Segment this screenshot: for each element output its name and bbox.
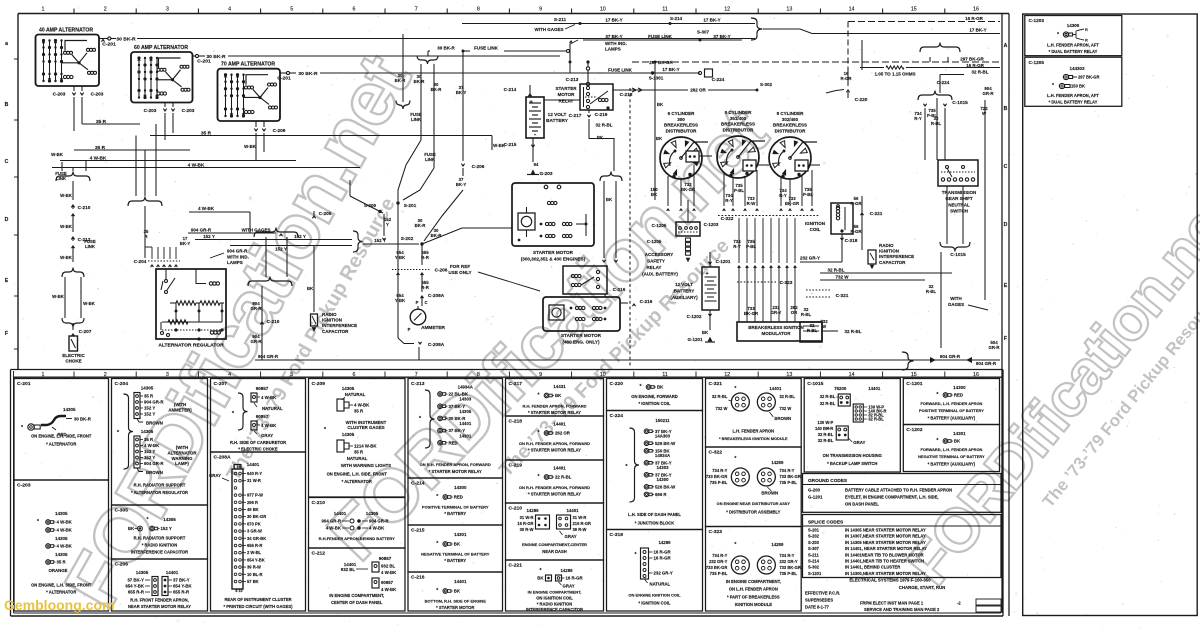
electric choke <box>69 336 78 351</box>
panel C-212 <box>309 548 406 611</box>
svg-text:14301: 14301 <box>459 433 472 438</box>
svg-text:152 Y: 152 Y <box>203 234 215 239</box>
svg-text:2 W-BL: 2 W-BL <box>247 550 262 555</box>
svg-text:W-BK: W-BK <box>60 255 73 260</box>
svg-text:(WITH: (WITH <box>174 402 187 407</box>
svg-text:37 BK-Y: 37 BK-Y <box>173 578 190 583</box>
resistance wire 1.05 to 1.15 ohms <box>886 66 904 69</box>
svg-text:C-1015: C-1015 <box>952 100 968 106</box>
svg-text:17 BK-Y: 17 BK-Y <box>703 18 720 23</box>
svg-text:GR-R: GR-R <box>982 91 994 96</box>
starter1 coils <box>545 222 548 225</box>
svg-text:* BREAKERLESS IGNITION MODULE: * BREAKERLESS IGNITION MODULE <box>719 436 788 441</box>
C-204 connector group 1 <box>134 393 140 419</box>
svg-text:13: 13 <box>786 372 792 378</box>
svg-text:DISTRIBUTOR: DISTRIBUTOR <box>723 127 755 132</box>
svg-text:R-Y: R-Y <box>914 116 922 121</box>
svg-text:735 P-BL: 735 P-BL <box>710 571 728 576</box>
svg-text:ON R.H. FENDER APRON, FORWARD: ON R.H. FENDER APRON, FORWARD <box>420 462 491 467</box>
svg-text:35 R: 35 R <box>96 119 107 125</box>
wire 152 Y lower <box>230 245 352 247</box>
svg-text:GR-Y: GR-Y <box>771 310 782 315</box>
transmission gear shift neutral switch <box>938 160 978 186</box>
svg-text:L.H. FENDER APRON, AFT: L.H. FENDER APRON, AFT <box>1047 43 1099 48</box>
svg-text:232 GR-Y: 232 GR-Y <box>654 571 673 576</box>
svg-text:R-BL: R-BL <box>931 121 942 126</box>
svg-text:152 Y: 152 Y <box>294 234 306 239</box>
wire 4 W-BK mid <box>189 211 250 213</box>
svg-text:17 BK-Y: 17 BK-Y <box>662 67 679 72</box>
svg-text:*: * <box>936 438 938 444</box>
svg-text:S-203: S-203 <box>808 540 820 545</box>
svg-text:C-204: C-204 <box>134 259 147 265</box>
connector C-203 pair below 40A alternator <box>73 86 75 91</box>
svg-text:BK: BK <box>307 286 314 291</box>
svg-text:C-1015: C-1015 <box>807 381 823 387</box>
wire brace right of regulator (lower) <box>248 277 292 287</box>
svg-text:FRPM ELECT INST MAN PAGE 1: FRPM ELECT INST MAN PAGE 1 <box>860 601 924 606</box>
svg-text:734 R-Y: 734 R-Y <box>712 553 727 558</box>
svg-text:* ALTERNATOR: * ALTERNATOR <box>46 442 76 447</box>
svg-text:32 R-BL: 32 R-BL <box>779 394 795 399</box>
svg-text:EYELET, IN ENGINE COMPARTMENT,: EYELET, IN ENGINE COMPARTMENT, L.H. SIDE… <box>845 495 939 500</box>
svg-text:C-212: C-212 <box>312 551 326 557</box>
fuse link drop corner at 30 BK-R bus <box>427 51 429 56</box>
svg-text:BATTERY: BATTERY <box>674 288 695 293</box>
svg-text:C-201: C-201 <box>197 59 211 65</box>
svg-text:14300: 14300 <box>656 477 669 482</box>
svg-text:BK-GR: BK-GR <box>744 311 759 316</box>
svg-text:* ALTERNATOR REGULATOR: * ALTERNATOR REGULATOR <box>131 490 188 495</box>
bottom bus arrows 904 GR-R right <box>902 352 913 370</box>
svg-text:R-GR: R-GR <box>850 201 862 206</box>
svg-text:RED: RED <box>454 495 463 500</box>
starter motor relay <box>580 84 613 110</box>
brace pair junction (left) <box>62 268 84 278</box>
svg-text:BK: BK <box>657 102 664 107</box>
svg-text:ON R.H. FENDER APRON, FORWARD: ON R.H. FENDER APRON, FORWARD <box>519 485 590 490</box>
svg-text:ALTERNATOR REGULATOR: ALTERNATOR REGULATOR <box>158 343 224 349</box>
svg-text:14401: 14401 <box>454 579 467 584</box>
svg-text:90857: 90857 <box>381 580 394 585</box>
svg-text:2: 2 <box>104 372 107 378</box>
svg-text:*: * <box>537 430 539 436</box>
svg-text:31 W-R: 31 W-R <box>247 478 261 483</box>
svg-text:733 BK-GR: 733 BK-GR <box>779 565 800 570</box>
distributor rotor and lever <box>727 150 732 165</box>
svg-text:8 CYLINDER: 8 CYLINDER <box>725 110 753 115</box>
svg-text:LINK: LINK <box>56 176 67 181</box>
svg-text:262 OR: 262 OR <box>690 88 706 93</box>
alternator regulator box <box>156 269 226 339</box>
svg-text:35 R: 35 R <box>354 450 364 455</box>
svg-text:BROWN: BROWN <box>774 416 791 421</box>
svg-text:BK: BK <box>128 526 135 531</box>
svg-text:BREAKERLESS: BREAKERLESS <box>773 123 807 128</box>
wire 262 OR <box>613 89 688 91</box>
svg-text:14401: 14401 <box>334 511 347 516</box>
svg-text:3 GR-W: 3 GR-W <box>247 529 262 534</box>
svg-text:640 R-Y: 640 R-Y <box>247 471 262 476</box>
wires 32 R-BL and 732 W horizontal <box>820 272 952 274</box>
svg-text:D: D <box>5 217 9 223</box>
svg-text:35 R: 35 R <box>354 409 364 414</box>
svg-text:S-201: S-201 <box>404 203 417 209</box>
svg-text:12: 12 <box>724 372 730 378</box>
svg-text:*: * <box>1052 83 1054 89</box>
svg-text:NATURAL: NATURAL <box>650 582 671 587</box>
svg-text:C-207: C-207 <box>79 329 92 335</box>
svg-text:C-203: C-203 <box>182 108 195 114</box>
svg-text:C-218: C-218 <box>620 92 633 98</box>
svg-text:* BATTERY (AUXILIARY): * BATTERY (AUXILIARY) <box>928 416 976 421</box>
svg-text:IGNITION: IGNITION <box>322 318 342 323</box>
svg-text:CAPACITOR: CAPACITOR <box>322 329 349 334</box>
svg-text:300: 300 <box>677 117 685 122</box>
svg-text:IN ENGINE COMPARTMENT,: IN ENGINE COMPARTMENT, <box>528 590 582 595</box>
svg-text:*: * <box>146 517 148 523</box>
svg-text:E: E <box>5 278 9 284</box>
svg-text:F: F <box>5 331 8 337</box>
svg-text:14: 14 <box>849 7 855 13</box>
svg-text:NATURAL: NATURAL <box>345 392 366 397</box>
svg-text:4 W-BK: 4 W-BK <box>381 570 397 575</box>
svg-text:C-221: C-221 <box>509 563 523 569</box>
svg-text:904 GR-R: 904 GR-R <box>191 228 212 233</box>
right reference box outer <box>1023 14 1197 616</box>
svg-text:R.H. FENDER APRON, FORWARD: R.H. FENDER APRON, FORWARD <box>522 404 586 409</box>
svg-text:14300: 14300 <box>454 485 467 490</box>
svg-text:14305: 14305 <box>342 432 355 437</box>
svg-text:14303: 14303 <box>459 397 472 402</box>
svg-text:734 R-Y: 734 R-Y <box>779 553 794 558</box>
svg-text:Y-BK: Y-BK <box>395 255 406 260</box>
fuse link row 2 <box>569 61 572 64</box>
fuse link chain 1 <box>420 64 422 140</box>
ground codes box <box>803 474 1002 513</box>
svg-text:(AUXILIARY): (AUXILIARY) <box>670 295 698 300</box>
svg-text:*: * <box>734 386 736 392</box>
reference sub-box C-1205 <box>1025 57 1122 106</box>
svg-text:32 R-BL: 32 R-BL <box>868 417 884 422</box>
svg-text:BREAKERLESS: BREAKERLESS <box>721 122 755 127</box>
svg-text:35 R: 35 R <box>95 145 106 151</box>
svg-text:S-211: S-211 <box>554 17 567 23</box>
svg-text:32 R-BL: 32 R-BL <box>712 394 728 399</box>
svg-text:4 W-BK: 4 W-BK <box>381 587 397 592</box>
wires above starter motors <box>600 172 622 182</box>
svg-text:FUSE LINK: FUSE LINK <box>608 68 633 73</box>
svg-text:R-GR: R-GR <box>840 76 852 81</box>
svg-text:SWITCH: SWITCH <box>950 209 968 214</box>
C-206 mating connectors <box>152 577 158 596</box>
svg-text:C-203: C-203 <box>91 92 104 98</box>
panel C-322 <box>706 447 802 527</box>
svg-text:G-200: G-200 <box>808 488 821 493</box>
svg-text:R.H. RADIATOR SUPPORT: R.H. RADIATOR SUPPORT <box>134 483 186 488</box>
svg-text:152 Y: 152 Y <box>144 412 155 417</box>
svg-text:* ELECTRIC CHOKE: * ELECTRIC CHOKE <box>238 447 278 452</box>
svg-text:140 BK-R: 140 BK-R <box>815 426 833 431</box>
wire gather brace left (alternator ground bundle) <box>56 172 90 182</box>
C-318 connector strip <box>641 548 649 579</box>
svg-text:*: * <box>827 427 829 433</box>
svg-text:FUSE LINK: FUSE LINK <box>648 34 673 39</box>
splice S-209 and 152 Y drop <box>350 196 383 213</box>
svg-text:8 CYLINDER: 8 CYLINDER <box>777 111 805 116</box>
svg-text:C-214: C-214 <box>504 87 517 93</box>
svg-text:*: * <box>936 392 938 398</box>
svg-text:LINK: LINK <box>425 157 436 162</box>
svg-text:LINK: LINK <box>411 117 422 122</box>
svg-text:IN 14305 NEAR STARTER MOTOR RE: IN 14305 NEAR STARTER MOTOR RELAY <box>845 540 926 545</box>
svg-text:14934A: 14934A <box>458 385 474 390</box>
svg-text:14401: 14401 <box>868 386 881 391</box>
svg-text:C-204: C-204 <box>115 381 129 387</box>
module box right of modulator <box>800 322 822 342</box>
C-201 terminal drawing <box>28 424 34 430</box>
svg-text:DISTRIBUTOR: DISTRIBUTOR <box>666 128 698 133</box>
svg-text:P-BL: P-BL <box>927 113 937 118</box>
svg-text:297 BK-GR: 297 BK-GR <box>649 60 673 65</box>
svg-text:-: - <box>534 132 536 139</box>
svg-text:734 R-Y: 734 R-Y <box>712 468 727 473</box>
svg-text:8 10: 8 10 <box>235 589 242 593</box>
svg-text:* RADIO IGNITION: * RADIO IGNITION <box>537 602 572 607</box>
C-203 ring terminals <box>46 520 51 525</box>
svg-text:R-R: R-R <box>421 285 430 290</box>
svg-text:262 OR: 262 OR <box>555 431 571 436</box>
svg-text:297 BK-GR: 297 BK-GR <box>1078 75 1099 80</box>
svg-text:C-305: C-305 <box>115 508 129 514</box>
svg-text:152 Y: 152 Y <box>144 449 155 454</box>
svg-text:35 R: 35 R <box>144 437 154 442</box>
svg-text:296 R: 296 R <box>247 500 258 505</box>
svg-text:302/460: 302/460 <box>782 117 799 122</box>
panel C-219 <box>506 460 604 503</box>
svg-text:C-1205: C-1205 <box>652 223 667 228</box>
panel C-318 <box>607 530 703 612</box>
svg-text:4 W-BK: 4 W-BK <box>57 520 73 525</box>
svg-text:* BACKUP LAMP SWITCH: * BACKUP LAMP SWITCH <box>827 461 877 466</box>
C-210 mating pair <box>350 519 354 523</box>
svg-text:LAMPS: LAMPS <box>227 260 243 265</box>
panel C-210 <box>506 503 604 560</box>
svg-text:32 R-BL: 32 R-BL <box>818 432 834 437</box>
panel C-204 <box>112 379 208 506</box>
svg-text:COIL: COIL <box>810 227 821 232</box>
svg-text:BK-Y: BK-Y <box>456 182 467 187</box>
svg-text:BREAKERLESS IGNITION: BREAKERLESS IGNITION <box>748 325 803 330</box>
panel C-206 <box>112 559 208 611</box>
svg-text:R-Y: R-Y <box>725 198 733 203</box>
svg-text:BK-Y: BK-Y <box>456 90 467 95</box>
svg-text:C-203: C-203 <box>53 92 66 98</box>
svg-text:S-1301: S-1301 <box>649 76 664 81</box>
svg-text:(300,302,351 & 400 ENGINES): (300,302,351 & 400 ENGINES) <box>521 256 586 261</box>
svg-text:WITH IND.: WITH IND. <box>605 41 627 46</box>
svg-text:C-322: C-322 <box>709 450 723 456</box>
svg-text:904 GR-R: 904 GR-R <box>258 354 279 359</box>
svg-text:16 R-GR: 16 R-GR <box>517 521 533 526</box>
svg-text:S-201: S-201 <box>808 528 820 533</box>
C-204 connector group 2 <box>134 436 140 468</box>
svg-text:904 GR-R: 904 GR-R <box>369 519 389 524</box>
svg-text:C-224: C-224 <box>937 80 950 86</box>
connector C-321 dashed <box>806 289 830 291</box>
panel C-321 <box>706 379 802 448</box>
svg-text:W-BK: W-BK <box>51 152 64 157</box>
svg-text:NEGATIVE TERMINAL OF BATTERY: NEGATIVE TERMINAL OF BATTERY <box>918 454 985 459</box>
svg-text:216 R-GR: 216 R-GR <box>573 521 592 526</box>
svg-text:655 R-R: 655 R-R <box>247 543 262 548</box>
svg-text:GRAY: GRAY <box>563 584 575 589</box>
svg-text:16 R-GR: 16 R-GR <box>654 556 672 561</box>
svg-text:655 R-R: 655 R-R <box>173 590 190 595</box>
right bus 16 R-GR top (dashed) <box>848 21 1000 23</box>
wire 152 Y upper <box>195 239 352 241</box>
svg-text:Y-BK: Y-BK <box>395 298 406 303</box>
reference sub-box C-1203 <box>1025 16 1122 56</box>
svg-text:BK-R: BK-R <box>414 79 426 84</box>
svg-text:39 R-W: 39 R-W <box>247 565 261 570</box>
svg-text:BK-R: BK-R <box>431 87 443 92</box>
radio ignition interference capacitor (left) <box>313 246 315 313</box>
svg-text:INTERFERENCE: INTERFERENCE <box>322 323 357 328</box>
svg-text:16 R-GR: 16 R-GR <box>566 576 584 581</box>
C-210 connector blocks <box>536 515 550 529</box>
svg-text:CENTER OF DASH PANEL: CENTER OF DASH PANEL <box>331 600 383 605</box>
svg-text:ON ENGINE, L.H. SIDE, FRONT: ON ENGINE, L.H. SIDE, FRONT <box>31 434 92 439</box>
svg-text:*: * <box>37 519 39 525</box>
brace 152Y right <box>353 231 363 252</box>
wire C-221 chain <box>861 196 863 250</box>
svg-text:BK: BK <box>657 385 664 390</box>
svg-text:904 GR-R: 904 GR-R <box>322 519 342 524</box>
fuse link chain 2 <box>433 64 435 168</box>
splice S-201 junction <box>396 201 399 204</box>
svg-text:C-318: C-318 <box>845 238 858 244</box>
svg-text:CHARGE, START, RUN: CHARGE, START, RUN <box>899 585 946 590</box>
svg-text:ON IGNITION COIL: ON IGNITION COIL <box>536 596 573 601</box>
svg-text:ON DASH PANEL: ON DASH PANEL <box>845 502 879 507</box>
svg-text:IGNITION: IGNITION <box>805 221 825 226</box>
svg-text:FORWARD, L.H. FENDER APRON: FORWARD, L.H. FENDER APRON <box>920 401 982 406</box>
svg-text:*: * <box>639 384 641 390</box>
svg-text:C-220: C-220 <box>610 381 624 387</box>
svg-text:14401: 14401 <box>166 570 179 575</box>
svg-text:4 W-BK: 4 W-BK <box>354 403 370 408</box>
ammeter <box>410 309 426 325</box>
svg-text:30 BK-R: 30 BK-R <box>74 417 92 422</box>
svg-text:* STARTER MOTOR RELAY: * STARTER MOTOR RELAY <box>528 410 581 415</box>
svg-text:* BATTERY: * BATTERY <box>444 558 466 563</box>
svg-text:4 W-BK: 4 W-BK <box>261 395 277 400</box>
svg-text:GROUND CODES: GROUND CODES <box>808 478 847 484</box>
svg-text:351/400: 351/400 <box>730 116 747 121</box>
svg-text:IN 14300,NEAR STARTER MOTOR RE: IN 14300,NEAR STARTER MOTOR RELAY <box>845 571 926 576</box>
svg-text:Y: Y <box>386 222 389 227</box>
svg-text:BATTERY CABLE ATTACHED TO R.H.: BATTERY CABLE ATTACHED TO R.H. FENDER AP… <box>845 488 952 493</box>
svg-text:904 GR-R: 904 GR-R <box>976 361 997 366</box>
svg-text:14401: 14401 <box>553 466 566 471</box>
svg-text:C-203: C-203 <box>17 483 31 489</box>
svg-text:14401: 14401 <box>566 508 579 513</box>
svg-text:B: B <box>1004 106 1008 112</box>
panel C-220 <box>607 379 703 411</box>
svg-text:14300: 14300 <box>953 385 966 390</box>
svg-text:32 R-BL: 32 R-BL <box>844 329 861 334</box>
bus wire 35 R joining alternator outputs <box>82 123 140 125</box>
svg-text:ON R.H. FENDER APRON, FORWARD: ON R.H. FENDER APRON, FORWARD <box>519 441 590 446</box>
svg-text:15: 15 <box>911 7 917 13</box>
svg-text:C-217: C-217 <box>509 381 523 387</box>
svg-text:(WITH: (WITH <box>176 445 189 450</box>
connector arrows row under leads <box>667 209 670 211</box>
starter2 connector wires <box>620 302 628 304</box>
svg-text:14305: 14305 <box>136 570 149 575</box>
svg-text:32 R-BL: 32 R-BL <box>971 70 988 75</box>
svg-text:G-203: G-203 <box>539 171 552 177</box>
distributor rotor and lever <box>779 151 784 166</box>
distributor cap tab 2 <box>743 160 756 171</box>
svg-text:*: * <box>734 542 736 548</box>
svg-text:S-202: S-202 <box>401 236 414 242</box>
svg-text:ON ENGINE IGNITION COIL: ON ENGINE IGNITION COIL <box>628 593 681 598</box>
svg-text:C-1203: C-1203 <box>1029 18 1045 24</box>
panel C-210 <box>309 498 406 549</box>
svg-text:735 P-BL: 735 P-BL <box>710 480 728 485</box>
svg-text:* DISTRIBUTOR ASSEMBLY: * DISTRIBUTOR ASSEMBLY <box>726 510 780 515</box>
svg-text:C-1205: C-1205 <box>647 239 662 244</box>
svg-text:31 W-R: 31 W-R <box>573 515 587 520</box>
svg-text:(460 ENG. ONLY): (460 ENG. ONLY) <box>562 339 600 344</box>
svg-text:904 GR-R: 904 GR-R <box>144 400 164 405</box>
panel C-209 <box>309 379 406 498</box>
svg-text:16: 16 <box>973 372 979 378</box>
svg-text:BK: BK <box>537 576 544 581</box>
aux battery 12V <box>702 267 719 310</box>
svg-text:4 W-BK: 4 W-BK <box>57 528 73 533</box>
splice codes box <box>803 515 1002 578</box>
svg-text:S-302: S-302 <box>808 565 820 570</box>
svg-text:*: * <box>436 588 438 594</box>
svg-text:BK: BK <box>954 439 961 444</box>
C-1205 terminal drawings <box>1063 74 1068 79</box>
sheet frame left border <box>17 14 19 370</box>
svg-text:12 VOLT: 12 VOLT <box>675 282 693 287</box>
svg-text:ON ENGINE, FORWARD: ON ENGINE, FORWARD <box>631 394 678 399</box>
svg-text:732 W: 732 W <box>779 406 791 411</box>
svg-text:SERVICE AND TRAINING MAN PAGE: SERVICE AND TRAINING MAN PAGE 2 <box>864 607 940 612</box>
svg-text:14401: 14401 <box>459 421 472 426</box>
svg-text:666 R: 666 R <box>655 492 667 497</box>
svg-text:14A303: 14A303 <box>655 434 671 439</box>
svg-text:NEAR DASH: NEAR DASH <box>542 549 566 554</box>
svg-text:L.H. SIDE OF DASH PANEL: L.H. SIDE OF DASH PANEL <box>628 512 681 517</box>
alternator 40A output wire 30 BK-R with connector C-201 <box>99 38 108 40</box>
panel C-214 <box>408 478 503 525</box>
svg-text:ELECTRICAL SYSTEMS 1979 F-100-: ELECTRICAL SYSTEMS 1979 F-100-350 <box>849 578 931 583</box>
svg-text:R: R <box>1085 28 1088 32</box>
top bus S-211 17 BK-Y with gages <box>462 23 755 25</box>
svg-text:232 GR-Y: 232 GR-Y <box>779 559 798 564</box>
wire 32 GR-Y <box>800 261 842 263</box>
svg-text:R-BL: R-BL <box>807 328 818 333</box>
svg-text:* STARTER MOTOR RELAY: * STARTER MOTOR RELAY <box>528 448 581 453</box>
separator dashed vertical <box>629 88 631 368</box>
svg-text:35 R: 35 R <box>144 394 154 399</box>
